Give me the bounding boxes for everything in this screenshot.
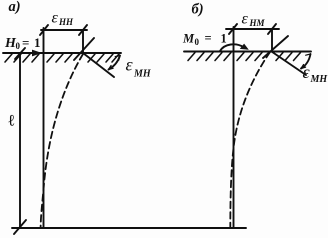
diagram b: moment arrow M0=1 xyxy=(220,44,244,51)
svg-text:=: = xyxy=(205,31,212,45)
svg-text:б): б) xyxy=(192,2,204,18)
diagram b: dimension tick right xyxy=(268,24,276,34)
diagram a: l top tick xyxy=(15,48,25,59)
diagram b: ground line xyxy=(184,51,311,53)
svg-text:ε: ε xyxy=(126,55,134,75)
diagram a: rotated tangent line e_MH xyxy=(83,53,114,77)
diagram a: dashed deflected axis xyxy=(41,54,83,228)
svg-text:ℓ: ℓ xyxy=(8,113,16,130)
diagram a: length dimension line l xyxy=(19,54,21,228)
svg-text:1: 1 xyxy=(221,32,227,46)
svg-text:=: = xyxy=(22,35,29,50)
diagram a: long slash at head crossing xyxy=(74,38,94,60)
svg-text:0: 0 xyxy=(16,41,21,51)
svg-text:МН: МН xyxy=(310,74,328,85)
diagram b: long slash at head crossing xyxy=(263,36,288,58)
diagram b: ground hatching xyxy=(188,53,301,61)
diagram a: ground line xyxy=(3,52,121,54)
diagram b: dimension tick left xyxy=(229,24,237,34)
diagram a: ground hatching xyxy=(5,54,119,62)
svg-text:0: 0 xyxy=(195,37,200,47)
diagram a: force arrow H0=1 xyxy=(11,52,36,54)
diagram b: dashed deflected axis xyxy=(230,52,270,228)
diagram a: dimension tick right xyxy=(79,25,87,35)
diagram b: top dimension line for e_HM xyxy=(226,28,279,30)
svg-text:1: 1 xyxy=(34,35,41,50)
diagram b: pile axis xyxy=(233,27,235,228)
base line xyxy=(12,227,246,229)
svg-text:ε: ε xyxy=(242,11,249,28)
svg-text:МН: МН xyxy=(133,69,152,80)
svg-text:НМ: НМ xyxy=(249,18,266,28)
diagram a: extension line at displaced head xyxy=(82,30,84,53)
diagram a: top dimension line for e_HH xyxy=(41,29,87,31)
diagram a: l bottom tick xyxy=(14,220,26,234)
diagram b: extension line at displaced head xyxy=(271,29,273,51)
svg-text:ε: ε xyxy=(52,10,59,27)
diagram a: pile axis (vertical from dimension line to base) xyxy=(43,28,45,228)
svg-text:НН: НН xyxy=(58,17,74,27)
svg-text:а): а) xyxy=(9,0,21,15)
diagram a: dimension tick left xyxy=(40,25,48,35)
svg-text:M: M xyxy=(182,32,195,46)
diagram b: rotated tangent line e_MM xyxy=(272,52,307,76)
svg-text:ε: ε xyxy=(303,62,311,82)
diagram b: angle arc with arrowheads xyxy=(301,54,311,69)
diagram a: angle arc with arrowheads xyxy=(109,56,121,70)
